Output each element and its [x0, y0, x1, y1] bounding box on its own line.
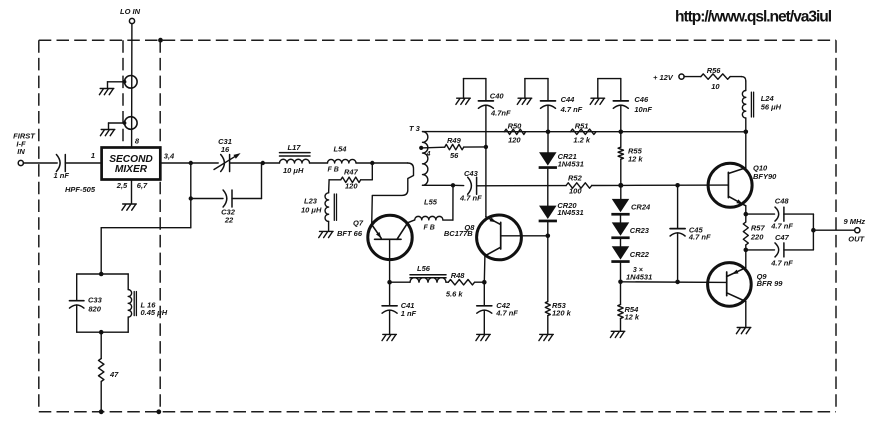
svg-text:BC177B: BC177B	[444, 229, 473, 238]
svg-text:12 k: 12 k	[628, 155, 643, 164]
svg-text:22: 22	[224, 215, 234, 224]
svg-text:120: 120	[345, 182, 358, 191]
svg-text:1N4531: 1N4531	[558, 159, 584, 168]
svg-text:4: 4	[426, 151, 431, 158]
svg-text:120: 120	[508, 136, 521, 145]
svg-text:1 nF: 1 nF	[401, 309, 417, 318]
svg-text:R52: R52	[568, 173, 583, 182]
svg-text:47: 47	[109, 370, 119, 379]
svg-text:F B: F B	[424, 225, 435, 232]
svg-text:L55: L55	[424, 198, 438, 207]
svg-text:100: 100	[569, 186, 582, 195]
svg-text:10 μH: 10 μH	[301, 205, 322, 214]
svg-text:9 MHz: 9 MHz	[844, 217, 866, 226]
svg-text:R49: R49	[447, 136, 462, 145]
svg-text:R57: R57	[751, 223, 766, 232]
svg-text:C33: C33	[88, 296, 103, 305]
svg-text:2,5: 2,5	[116, 181, 128, 190]
svg-text:C43: C43	[464, 169, 479, 178]
svg-text:6,7: 6,7	[137, 181, 148, 190]
svg-text:LO IN: LO IN	[120, 7, 141, 16]
svg-text:56: 56	[450, 151, 459, 160]
svg-text:CR24: CR24	[631, 203, 651, 212]
svg-text:Q7: Q7	[353, 219, 364, 228]
svg-text:CR23: CR23	[630, 226, 650, 235]
svg-text:BFT 66: BFT 66	[337, 229, 363, 238]
svg-text:HPF-505: HPF-505	[65, 185, 96, 194]
svg-text:C46: C46	[634, 95, 649, 104]
svg-text:C40: C40	[490, 92, 505, 101]
svg-text:C47: C47	[775, 233, 790, 242]
svg-text:16: 16	[221, 145, 230, 154]
svg-text:1: 1	[91, 151, 95, 160]
svg-text:5.6 k: 5.6 k	[446, 290, 464, 299]
svg-text:R56: R56	[707, 66, 722, 75]
svg-text:CR22: CR22	[630, 250, 650, 259]
svg-text:T 3: T 3	[409, 124, 421, 133]
svg-text:R47: R47	[344, 168, 359, 177]
svg-text:BFY90: BFY90	[753, 172, 777, 181]
svg-text:4.7 nF: 4.7 nF	[688, 233, 711, 242]
svg-text:BFR 99: BFR 99	[757, 279, 784, 288]
svg-text:C48: C48	[775, 197, 790, 206]
svg-text:L56: L56	[417, 264, 431, 273]
svg-text:12 k: 12 k	[625, 313, 640, 322]
svg-text:http://www.qsl.net/va3iul: http://www.qsl.net/va3iul	[675, 9, 832, 26]
svg-text:L17: L17	[288, 143, 302, 152]
svg-text:4.7 nF: 4.7 nF	[459, 194, 482, 203]
svg-text:L54: L54	[334, 145, 348, 154]
svg-text:4.7nF: 4.7nF	[490, 108, 511, 117]
svg-text:10: 10	[711, 82, 720, 91]
svg-text:1 nF: 1 nF	[54, 171, 70, 180]
svg-text:4.7 nF: 4.7 nF	[495, 309, 518, 318]
svg-text:10nF: 10nF	[634, 105, 652, 114]
svg-text:R50: R50	[508, 121, 523, 130]
svg-text:IN: IN	[17, 147, 25, 156]
svg-text:4.7 nF: 4.7 nF	[560, 105, 583, 114]
svg-text:820: 820	[88, 304, 101, 313]
svg-text:L23: L23	[304, 197, 318, 206]
svg-text:3,4: 3,4	[164, 152, 175, 161]
svg-text:F B: F B	[328, 166, 339, 173]
svg-text:1N4531: 1N4531	[626, 273, 652, 282]
svg-text:220: 220	[750, 232, 764, 241]
svg-text:C44: C44	[561, 95, 576, 104]
svg-text:+ 12V: + 12V	[653, 73, 674, 82]
svg-text:MIXER: MIXER	[115, 164, 148, 175]
svg-text:1N4531: 1N4531	[557, 208, 583, 217]
svg-text:120 k: 120 k	[552, 308, 572, 317]
svg-text:4.7 nF: 4.7 nF	[770, 258, 793, 267]
svg-text:56 μH: 56 μH	[761, 103, 782, 112]
svg-text:1.2 k: 1.2 k	[573, 136, 591, 145]
svg-text:R51: R51	[575, 121, 589, 130]
svg-text:OUT: OUT	[848, 234, 865, 243]
svg-text:4.7 nF: 4.7 nF	[770, 221, 793, 230]
svg-text:0.45 μH: 0.45 μH	[141, 308, 168, 317]
svg-text:10 μH: 10 μH	[283, 166, 304, 175]
svg-text:R48: R48	[451, 271, 466, 280]
